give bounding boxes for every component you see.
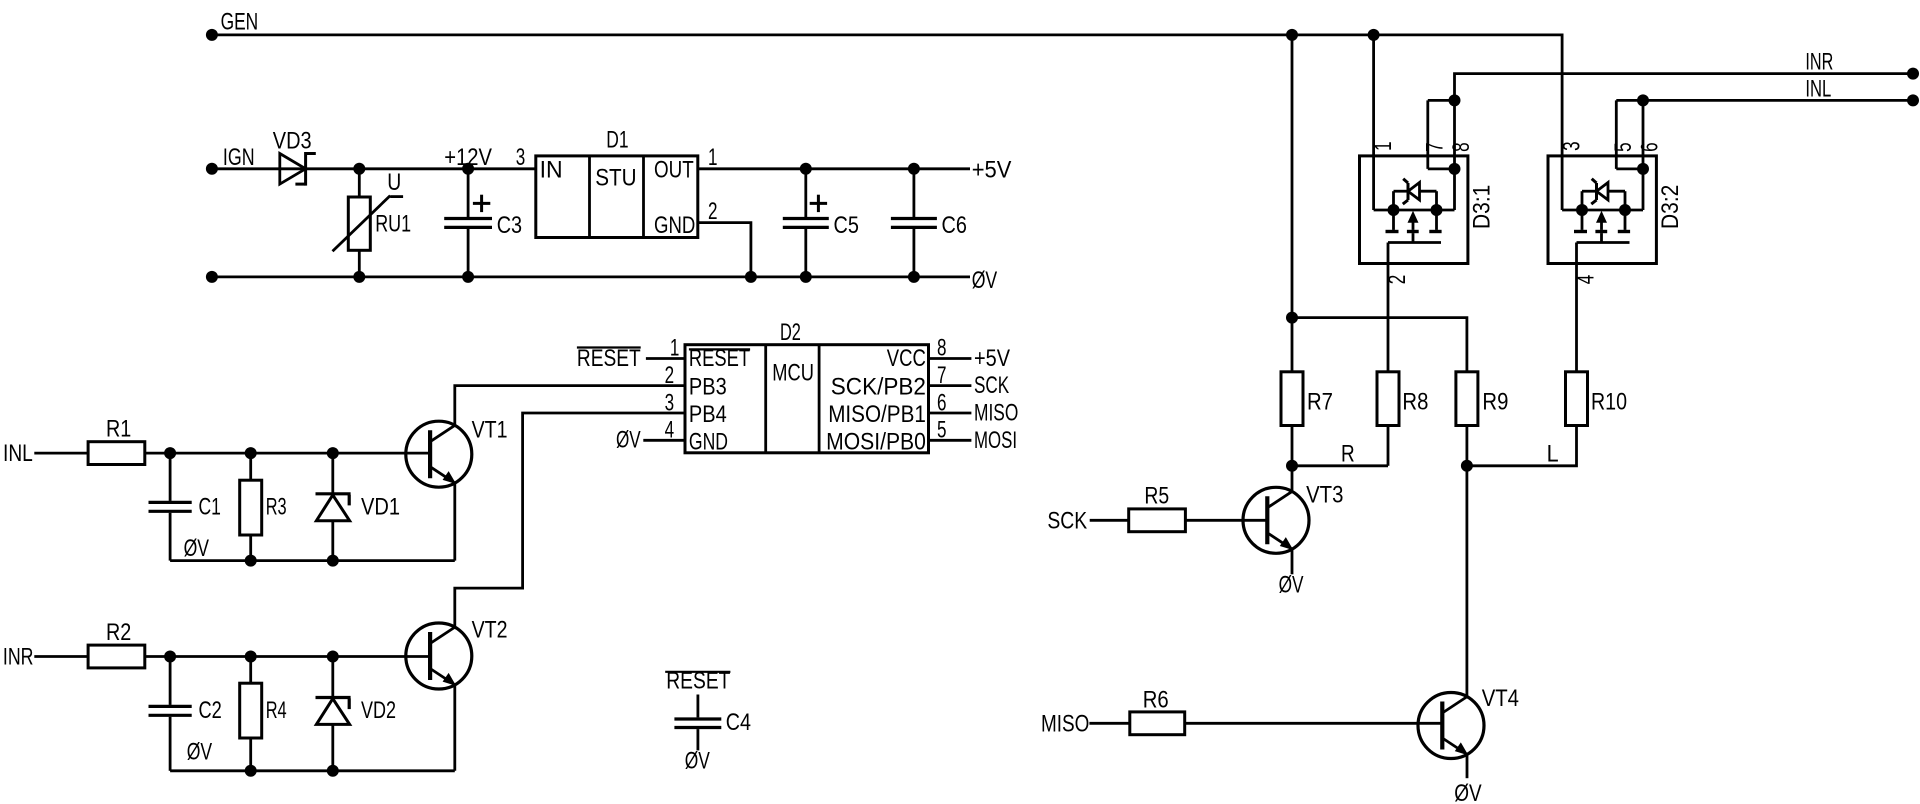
svg-text:R6: R6 bbox=[1143, 687, 1169, 714]
svg-text:C2: C2 bbox=[199, 697, 222, 724]
svg-text:R2: R2 bbox=[106, 619, 131, 646]
svg-text:R: R bbox=[1341, 441, 1355, 468]
svg-text:D3:1: D3:1 bbox=[1469, 185, 1496, 230]
svg-text:5: 5 bbox=[937, 417, 947, 444]
svg-text:R7: R7 bbox=[1307, 389, 1333, 416]
svg-text:3: 3 bbox=[665, 389, 675, 416]
svg-text:8: 8 bbox=[937, 335, 947, 362]
svg-text:ØV: ØV bbox=[685, 748, 710, 775]
svg-text:6: 6 bbox=[937, 389, 947, 416]
svg-text:VD2: VD2 bbox=[361, 697, 396, 724]
svg-text:INR: INR bbox=[1805, 49, 1833, 76]
svg-text:VT1: VT1 bbox=[472, 417, 508, 444]
svg-text:2: 2 bbox=[708, 198, 718, 225]
svg-text:L: L bbox=[1547, 441, 1559, 468]
svg-text:ØV: ØV bbox=[187, 739, 212, 766]
svg-text:C5: C5 bbox=[834, 212, 859, 239]
svg-text:VT3: VT3 bbox=[1306, 482, 1343, 509]
svg-text:R3: R3 bbox=[266, 494, 287, 521]
svg-text:R10: R10 bbox=[1591, 389, 1627, 416]
svg-text:4: 4 bbox=[665, 417, 675, 444]
svg-text:C1: C1 bbox=[199, 494, 221, 521]
svg-text:MISO: MISO bbox=[1041, 711, 1089, 738]
svg-text:VD3: VD3 bbox=[273, 128, 312, 155]
svg-text:INR: INR bbox=[3, 644, 34, 671]
svg-text:ØV: ØV bbox=[184, 535, 209, 562]
svg-text:ØV: ØV bbox=[1279, 572, 1304, 599]
svg-text:ØV: ØV bbox=[1454, 780, 1481, 804]
svg-text:GEN: GEN bbox=[221, 9, 259, 36]
svg-text:ØV: ØV bbox=[972, 267, 998, 294]
svg-text:D2: D2 bbox=[780, 319, 801, 346]
svg-text:OUT: OUT bbox=[654, 157, 694, 184]
svg-text:MOSI/PB0: MOSI/PB0 bbox=[826, 428, 926, 455]
svg-text:INL: INL bbox=[1805, 76, 1831, 103]
svg-text:1: 1 bbox=[708, 144, 718, 171]
svg-text:3: 3 bbox=[516, 144, 526, 171]
svg-text:C3: C3 bbox=[497, 212, 522, 239]
svg-text:STU: STU bbox=[595, 165, 636, 192]
svg-text:+12V: +12V bbox=[444, 144, 492, 171]
svg-text:VT2: VT2 bbox=[472, 617, 508, 644]
svg-text:R4: R4 bbox=[266, 697, 287, 724]
svg-text:2: 2 bbox=[665, 362, 675, 389]
svg-text:8: 8 bbox=[1448, 142, 1475, 152]
svg-text:U: U bbox=[387, 169, 401, 196]
svg-text:IGN: IGN bbox=[223, 144, 255, 171]
svg-text:C4: C4 bbox=[726, 709, 751, 736]
svg-text:MOSI: MOSI bbox=[974, 427, 1017, 454]
svg-text:R8: R8 bbox=[1402, 389, 1428, 416]
svg-text:C6: C6 bbox=[942, 212, 967, 239]
svg-text:GND: GND bbox=[689, 428, 728, 455]
svg-text:RESET: RESET bbox=[577, 345, 641, 372]
svg-text:R5: R5 bbox=[1144, 483, 1169, 510]
svg-text:7: 7 bbox=[937, 362, 947, 389]
svg-text:SCK: SCK bbox=[1047, 508, 1087, 535]
svg-text:VD1: VD1 bbox=[361, 494, 400, 521]
svg-text:+5V: +5V bbox=[972, 157, 1012, 184]
svg-text:PB4: PB4 bbox=[689, 401, 727, 428]
svg-text:MISO/PB1: MISO/PB1 bbox=[828, 401, 926, 428]
svg-text:RESET: RESET bbox=[666, 668, 730, 695]
svg-text:MCU: MCU bbox=[772, 359, 814, 386]
svg-text:INL: INL bbox=[3, 440, 33, 467]
svg-text:D3:2: D3:2 bbox=[1657, 185, 1684, 230]
svg-text:VT4: VT4 bbox=[1482, 685, 1519, 712]
svg-text:IN: IN bbox=[540, 157, 563, 184]
svg-text:+5V: +5V bbox=[974, 345, 1010, 372]
svg-text:R9: R9 bbox=[1482, 389, 1508, 416]
svg-text:ØV: ØV bbox=[616, 427, 641, 454]
svg-text:RU1: RU1 bbox=[375, 211, 411, 238]
svg-text:SCK: SCK bbox=[974, 372, 1009, 399]
svg-text:GND: GND bbox=[654, 212, 695, 239]
svg-text:RESET: RESET bbox=[689, 345, 750, 372]
svg-text:PB3: PB3 bbox=[689, 374, 727, 401]
svg-text:D1: D1 bbox=[606, 127, 628, 154]
svg-text:6: 6 bbox=[1636, 142, 1663, 152]
svg-text:5: 5 bbox=[1610, 142, 1637, 152]
svg-text:SCK/PB2: SCK/PB2 bbox=[831, 374, 926, 401]
svg-text:MISO: MISO bbox=[974, 400, 1018, 427]
svg-text:R1: R1 bbox=[106, 416, 131, 443]
svg-text:7: 7 bbox=[1421, 142, 1448, 152]
svg-text:VCC: VCC bbox=[887, 345, 926, 372]
svg-text:1: 1 bbox=[670, 335, 680, 362]
